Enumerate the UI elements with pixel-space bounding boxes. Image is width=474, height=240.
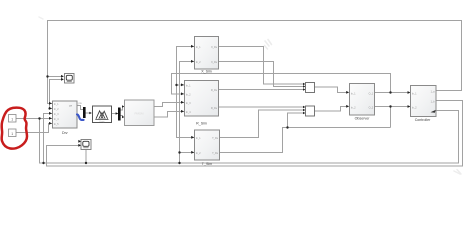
svg-text:R_Ou: R_Ou <box>211 108 218 110</box>
wire observer out2 to controller in2 <box>375 106 410 108</box>
svg-text:In_2: In_2 <box>412 107 417 109</box>
svg-text:T_Ou: T_Ou <box>212 138 218 140</box>
subsystem Drv <box>53 101 78 135</box>
svg-text:X_Ou: X_Ou <box>211 47 218 49</box>
wire scope1 in2 / Drv in2 <box>50 80 63 109</box>
svg-text:X_Sim: X_Sim <box>201 70 212 74</box>
svg-text:In_4: In_4 <box>54 119 59 121</box>
constant block A <box>9 115 17 123</box>
svg-text:In_1: In_1 <box>196 47 201 49</box>
wire long observer tap to R_Sim in2 <box>172 74 391 95</box>
input port arrows <box>49 45 411 154</box>
svg-text:In_1: In_1 <box>186 85 191 87</box>
constant block B <box>9 129 17 137</box>
subsystem Controller <box>411 86 437 123</box>
wire R_Sim out2 to muxD in1 <box>219 106 304 108</box>
svg-text:In_2: In_2 <box>186 94 191 96</box>
wire V1 X_Sim in1 / R_Sim in1 / T_Sim in1 <box>177 47 195 138</box>
svg-text:In_2: In_2 <box>196 153 201 155</box>
subsystem R_Sim <box>185 81 219 126</box>
svg-text:In_5: In_5 <box>54 124 59 126</box>
scope2 <box>81 140 91 150</box>
wire demux out1 to plant X in1 <box>121 107 125 111</box>
svg-text:1: 1 <box>11 118 13 122</box>
svg-text:pw: pw <box>79 102 82 105</box>
svg-text:In_1: In_1 <box>196 138 201 140</box>
svg-text:T_Sim: T_Sim <box>202 162 212 166</box>
svg-text:pw: pw <box>69 106 72 108</box>
wire X_Sim out1 to muxC in1 <box>219 47 304 85</box>
subsystem X_Sim <box>195 37 219 74</box>
wire demux out2 to plant X in2 <box>121 116 125 118</box>
svg-text:In_2: In_2 <box>54 109 59 111</box>
svg-text:Fuzzy: Fuzzy <box>100 121 105 123</box>
svg-text:In_4: In_4 <box>186 112 191 114</box>
svg-text:PMSM: PMSM <box>135 112 145 116</box>
wire inner bottom feedback <box>40 111 459 164</box>
mux1 black bar <box>83 107 86 118</box>
svg-text:In_3: In_3 <box>186 103 191 105</box>
subsystem T_Sim <box>195 130 220 166</box>
svg-text:In_1: In_1 <box>54 104 59 106</box>
mux D <box>306 106 315 116</box>
svg-text:In_2: In_2 <box>196 62 201 64</box>
wire X_Sim out2 to muxD in3 <box>219 62 304 87</box>
wire mux1 to fuzzy <box>86 112 91 114</box>
wire R_Sim out1 to muxC in3 <box>219 89 304 91</box>
svg-text:Observer: Observer <box>355 116 371 120</box>
wire fuzzy to demux <box>112 113 119 115</box>
wire V2 X_Sim in2 / T_Sim in2 <box>180 62 195 164</box>
faint smudge top left <box>39 17 43 19</box>
svg-text:O_2: O_2 <box>369 107 374 109</box>
svg-text:X_Ou: X_Ou <box>211 62 218 64</box>
mux C <box>306 83 315 93</box>
svg-text:In_1: In_1 <box>412 93 417 95</box>
svg-text:In_1: In_1 <box>351 93 356 95</box>
wire T_Sim out1 to muxD in2 <box>220 110 304 138</box>
subsystem Observer <box>350 84 375 121</box>
wire outer bottom feedback <box>47 101 463 167</box>
wire plant X out2 to R_Sim in4 <box>154 112 184 118</box>
svg-text:Drv: Drv <box>62 131 68 135</box>
wire muxD to observer in2 <box>315 107 349 112</box>
svg-text:In_2: In_2 <box>351 107 356 109</box>
wire Drv out1 to mux1 <box>77 106 83 110</box>
svg-text:R_Ou: R_Ou <box>211 90 218 92</box>
wire observer out1 to controller in1 <box>375 92 410 94</box>
wire T_Sim out2 to muxC in2 <box>220 128 391 153</box>
svg-text:In_3: In_3 <box>54 114 59 116</box>
fuzzy logic controller <box>93 106 112 123</box>
wire scope2 in1 riser <box>81 142 86 164</box>
faint smudge annotation center <box>265 40 272 50</box>
faint smudge annotation bottom right <box>454 170 461 175</box>
demux black bar <box>118 108 121 121</box>
wire branch to muxD in3 <box>288 113 304 128</box>
wire constant B to Drv in5 <box>16 124 52 133</box>
wire constant A to Drv in4 <box>16 118 52 120</box>
svg-text:1: 1 <box>11 132 13 136</box>
wire tap down from observer out2 <box>390 107 392 128</box>
wire branch to scope1 in1 <box>48 76 63 78</box>
svg-text:Controller: Controller <box>415 118 431 122</box>
svg-text:O_1: O_1 <box>369 93 374 95</box>
wire muxC to observer in1 <box>315 87 349 93</box>
blue thick wire Drv out2 to mux1 <box>77 114 84 120</box>
plant block X <box>125 100 155 126</box>
wire plant X out1 to R_Sim in3 <box>154 103 184 107</box>
red annotation blob <box>2 108 27 149</box>
scope1 <box>65 74 75 84</box>
wire feedback loop top <box>48 21 462 104</box>
svg-text:T_Ou: T_Ou <box>212 153 218 155</box>
wire riser to Drv in3 <box>44 114 53 164</box>
svg-text:R_Sim: R_Sim <box>196 122 207 126</box>
